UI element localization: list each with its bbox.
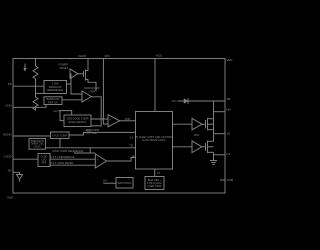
wire box3 to POR comparator — [91, 118, 108, 120]
wire box1 to LDO amp input — [67, 74, 72, 84]
svg-text:0.5 X 2 REFERENCE: 0.5 X 2 REFERENCE — [51, 156, 75, 159]
wire VB rail to fets and VS — [213, 101, 215, 134]
wire VS line — [214, 133, 226, 135]
high side fet pair Q2 — [202, 118, 214, 130]
svg-text:REF: REF — [42, 161, 47, 164]
thermal box2 — [44, 97, 62, 105]
svg-text:VCC: VCC — [156, 54, 163, 58]
resistor R2 (lower divider) — [33, 97, 38, 110]
svg-text:TD: TD — [129, 143, 133, 147]
svg-text:GND: GND — [7, 196, 13, 200]
svg-text:GND: GND — [5, 104, 11, 108]
svg-text:VB: VB — [227, 97, 231, 101]
wire boxC upper to comp2 — [50, 158, 95, 160]
svg-text:FB: FB — [8, 82, 12, 86]
svg-text:-: - — [109, 123, 110, 127]
svg-text:VIN: VIN — [104, 54, 109, 58]
svg-text:LEVEL DETECT: LEVEL DETECT — [68, 121, 87, 124]
low side fet pair Q3 — [202, 141, 214, 153]
wire CVDD to boxC — [13, 158, 38, 160]
svg-text:VDD: VDD — [227, 58, 233, 62]
logic block U5 — [136, 112, 173, 170]
svg-text:CVDD COMP REFERENCE: CVDD COMP REFERENCE — [52, 150, 84, 153]
wire GND line — [13, 105, 46, 108]
svg-text:WATCHDOG: WATCHDOG — [118, 182, 132, 185]
wire SD to ground — [13, 172, 20, 174]
svg-text:OT: OT — [157, 172, 161, 175]
wire LO output — [214, 154, 226, 156]
svg-text:POR: POR — [125, 117, 131, 121]
wire HO output — [214, 111, 226, 113]
svg-text:0.5 X CVDD REFER: 0.5 X CVDD REFER — [51, 162, 74, 165]
wire logic block to boxD — [154, 169, 156, 177]
wire comp2 to logic block — [107, 158, 136, 162]
wire VIN vertical to comparator — [103, 59, 108, 125]
wire logic to low driver — [173, 146, 193, 148]
bias box3 — [64, 115, 91, 127]
wire boxA to logic block — [46, 147, 136, 149]
wire to boxE — [103, 182, 116, 184]
wire logic to high driver — [173, 123, 193, 125]
wire COM stub — [220, 179, 225, 181]
svg-text:CVDD: CVDD — [4, 155, 12, 159]
wire Vbg to box3 — [59, 111, 72, 115]
wire boxB to logic block — [69, 132, 136, 135]
svg-text:-: - — [97, 164, 98, 168]
svg-text:UVLO COMP: UVLO COMP — [52, 134, 67, 137]
wire branch down to comp2 — [74, 148, 90, 153]
wire POR to logic block — [120, 120, 136, 122]
wire divider tap to box1 lower input — [36, 92, 45, 94]
POR comparator U3 — [108, 115, 120, 127]
wire into comp2 top — [90, 152, 95, 154]
wire VDDIN to boxB — [13, 135, 51, 137]
wire boxB down to timer wire — [59, 139, 61, 148]
low side driver U7 — [192, 141, 202, 153]
ground (SD analog gnd) — [17, 175, 23, 182]
svg-text:RESET: RESET — [60, 67, 69, 70]
svg-text:+: + — [97, 158, 99, 162]
pass transistor Q1 — [78, 59, 96, 92]
svg-text:GATE DRIVE LOGIC: GATE DRIVE LOGIC — [142, 139, 166, 142]
IC outline border — [13, 59, 225, 194]
svg-text:VCC: VCC — [172, 99, 178, 103]
wire into box3 left — [60, 111, 64, 121]
cvdd boxC — [38, 154, 50, 167]
current source arrow — [24, 64, 26, 70]
bootstrap diode D1 — [178, 100, 225, 102]
uvlo boxB — [51, 132, 70, 139]
svg-text:VLDO: VLDO — [78, 54, 87, 58]
svg-text:VS: VS — [227, 132, 231, 136]
svg-text:COM: COM — [227, 178, 234, 182]
svg-text:REFERENCE: REFERENCE — [47, 88, 63, 92]
wire VCC vertical to logic block — [154, 59, 156, 112]
svg-text:REF OK: REF OK — [48, 100, 58, 104]
svg-text:VDDIN: VDDIN — [3, 132, 12, 136]
watchdog boxA — [29, 139, 46, 150]
wire VS to low fet top — [213, 134, 215, 142]
svg-text:EN: EN — [103, 180, 107, 183]
wire boxC lower to comp2 — [50, 164, 95, 166]
svg-text:SD: SD — [8, 169, 12, 173]
svg-text:VDD: VDD — [194, 134, 199, 137]
svg-text:LOGIC: LOGIC — [33, 145, 41, 148]
comparator U4 — [95, 154, 106, 168]
wire error amp output — [91, 97, 101, 126]
svg-text:OVER TEMP: OVER TEMP — [147, 185, 161, 188]
bandgap box1 — [44, 81, 67, 94]
wire FB to box1 — [13, 85, 44, 87]
resistor R1 (upper divider) — [33, 59, 38, 98]
svg-text:ILK: ILK — [130, 137, 134, 140]
svg-text:+ REF: + REF — [88, 90, 96, 93]
LDO amp U1 — [70, 69, 78, 79]
error amp U2 — [82, 91, 91, 102]
high side driver U6 — [192, 118, 202, 130]
ground (low side source) — [210, 152, 217, 164]
svg-text:ILIM: ILIM — [87, 129, 92, 132]
wire box2 to error amp input — [62, 99, 82, 101]
wire box1 to error amp input — [71, 84, 82, 94]
svg-text:HI: HI — [132, 154, 135, 158]
watchdog boxE — [116, 178, 133, 189]
bias boxD — [145, 177, 164, 190]
